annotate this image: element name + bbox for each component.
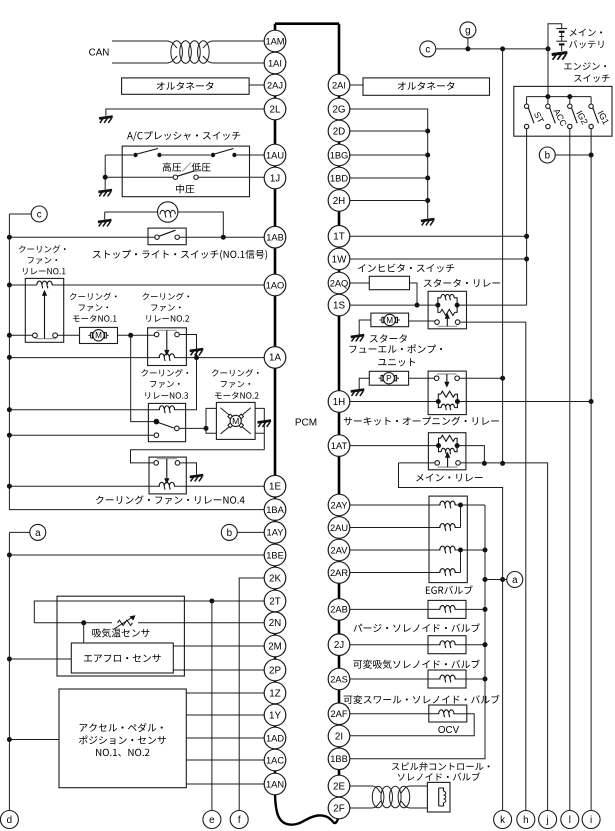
label high/low pressure — [163, 163, 211, 172]
svg-text:2N: 2N — [269, 618, 282, 629]
relay NO.3 blade — [159, 423, 174, 428]
svg-text:1AM: 1AM — [265, 36, 284, 46]
wire accel sensor to pin 1Y — [186, 714, 264, 716]
wire battery down to engine switch bus — [547, 49, 549, 97]
cooling fan motor NO.1 box — [80, 327, 118, 343]
main relay box — [428, 433, 466, 470]
wire pin 1AT through main relay coil — [350, 445, 439, 447]
node c — [420, 41, 436, 57]
svg-text:1BG: 1BG — [330, 150, 349, 160]
svg-text:d: d — [7, 815, 12, 826]
wire IG2 pole down to node l — [569, 129, 571, 811]
PCM pin 2I — [328, 725, 350, 747]
spill valve solenoid box — [427, 782, 450, 812]
wire pin 2AU through EGR coil 2 — [350, 527, 441, 529]
svg-text:2AI: 2AI — [332, 80, 346, 90]
wire pin 2K down to node f — [239, 578, 264, 810]
PCM connector spine (thick outline) — [275, 22, 339, 25]
wire battery vertical (upper) to main relay contact — [502, 49, 504, 464]
wire EGR bus to node a — [485, 579, 507, 581]
PCM pin 1AM — [264, 30, 286, 52]
wire inhibitor switch to 1S line — [410, 283, 418, 305]
label variable swirl solenoid valve — [344, 695, 500, 704]
ground (A/C switch) — [98, 190, 112, 192]
airflow sensor inner box — [71, 643, 173, 673]
main battery — [548, 24, 562, 49]
svg-text:2AS: 2AS — [330, 674, 348, 684]
wire bulb left to ground — [105, 211, 158, 213]
PCM pin 1A — [264, 347, 286, 369]
svg-text:CAN: CAN — [89, 47, 110, 58]
wire pin 2AQ to inhibitor switch — [350, 282, 370, 284]
wire accel sensor to pin 1AD — [186, 737, 264, 739]
PCM pin 1AD — [264, 727, 286, 749]
wire COR contact to battery line — [459, 377, 502, 379]
wire starter motor to ground — [359, 320, 371, 335]
wire pin 2AR through EGR coil 4 — [350, 572, 441, 574]
node g — [460, 22, 476, 38]
PCM pin 2AU — [328, 517, 350, 539]
wire pin 1H through COR coil — [350, 401, 439, 403]
ground (relay NO.4) — [190, 475, 204, 477]
alternator box (right) — [363, 78, 490, 95]
PCM pin 1W — [328, 248, 350, 270]
label main relay — [416, 474, 482, 482]
wire relay NO.3 NO to motor NO.2 — [179, 427, 206, 429]
cooling fan relay NO.2 box — [148, 328, 187, 366]
COR coil and resistor — [436, 399, 441, 404]
purge solenoid valve box — [428, 600, 466, 618]
wire pin 2AV through EGR coil 3 — [350, 549, 441, 551]
label starter relay — [424, 279, 500, 287]
wire bulb right to 1AB line — [178, 212, 223, 237]
wire relay NO.3 NC to left rail — [9, 434, 154, 436]
wire fuel pump to relay contact — [409, 377, 435, 379]
PCM pin 2G — [328, 98, 350, 120]
fuel pump box — [369, 371, 408, 385]
svg-text:1AT: 1AT — [331, 441, 348, 451]
svg-text:h: h — [523, 815, 528, 826]
svg-text:1BB: 1BB — [330, 754, 348, 764]
spill valve solenoid core symbol — [438, 788, 440, 806]
ground (starter motor) — [351, 335, 365, 337]
wire pin 2AF through OCV coil — [350, 713, 440, 715]
wire node b to pin 1AY — [237, 531, 264, 533]
relay NO.2 coil on 1A wire — [9, 357, 160, 359]
wire pin 2J through coil — [350, 644, 441, 646]
switch mid-pressure — [173, 175, 177, 179]
svg-text:M: M — [95, 331, 102, 340]
left rail A (from node c) — [9, 214, 264, 510]
svg-text:c: c — [425, 44, 430, 55]
wire A/C common to ground — [104, 155, 106, 190]
PCM pin 2T — [264, 590, 286, 612]
ground (2L) — [99, 117, 113, 119]
intake air temp sensor thermistor — [118, 620, 133, 625]
svg-text:1A: 1A — [269, 353, 281, 364]
left rail B from node a down to node d — [9, 531, 29, 533]
svg-text:1AY: 1AY — [267, 528, 284, 538]
wire junction down to relay NO.3 common — [131, 335, 155, 421]
wire main relay coil to contact line — [457, 446, 484, 464]
relay NO.4 contacts — [154, 461, 159, 466]
node i — [582, 811, 600, 829]
label stop light switch — [93, 250, 267, 260]
label EGR valve — [426, 585, 473, 594]
ground (fuel pump) — [351, 390, 365, 392]
PCM pin 1BG — [328, 144, 350, 166]
svg-text:1AO: 1AO — [266, 280, 285, 290]
wire pin 2H — [350, 200, 428, 202]
label starter — [370, 334, 407, 342]
label cooling fan motor NO.2 — [212, 369, 259, 377]
PCM pin 1Y — [264, 704, 286, 726]
PCM pin 2AS — [328, 668, 350, 690]
svg-text:2AR: 2AR — [330, 568, 348, 578]
relay NO.3 NO contact — [175, 426, 180, 431]
PCM pin 2N — [264, 612, 286, 634]
wire ST pole down to 1S line — [526, 129, 528, 305]
cooling fan relay NO.4 box — [149, 457, 186, 494]
OCV box — [429, 705, 467, 722]
svg-text:1AD: 1AD — [266, 733, 284, 743]
PCM pin 1AU — [264, 144, 286, 166]
engine switch pole IG2 — [569, 97, 571, 105]
variable swirl solenoid valve box — [428, 670, 466, 688]
cooling fan motor NO.2 box — [216, 402, 255, 439]
alternator box (left) — [122, 78, 250, 94]
wire switch to pin 1AB — [179, 236, 264, 238]
wire pin 2AI to alternator — [350, 84, 363, 86]
stop light bulb — [158, 202, 178, 222]
wire OCV coil to pin 2I — [350, 714, 474, 736]
PCM pin 1S — [328, 294, 350, 316]
PCM pin 1BA — [264, 499, 286, 521]
label spill valve control solenoid valve — [392, 762, 490, 771]
svg-text:2H: 2H — [333, 196, 346, 207]
twisted pair spill valve — [372, 786, 384, 808]
switch hi/lo contact 2 — [211, 153, 215, 157]
PCM pin 2P — [264, 659, 286, 681]
svg-text:2F: 2F — [333, 803, 344, 814]
svg-text:1S: 1S — [333, 300, 345, 311]
PCM pin 1BD — [328, 167, 350, 189]
svg-text:1BA: 1BA — [266, 505, 284, 515]
PCM pin 2M — [264, 635, 286, 657]
starter motor symbol — [382, 317, 384, 322]
svg-text:1AU: 1AU — [266, 150, 284, 160]
fuel pump symbol — [381, 376, 383, 381]
relay NO.3 NC contact — [154, 433, 159, 438]
wire relay NO.4 right contact to ground — [180, 463, 197, 475]
PCM pin 1BE — [264, 544, 286, 566]
svg-text:2K: 2K — [269, 573, 281, 584]
wire pin 2E twisted pair — [350, 785, 372, 787]
wire relay NO.2 right contact down to relay NO.3 coil — [179, 335, 196, 410]
wire pin 2D — [350, 130, 428, 132]
wire rail B to airflow sensor — [9, 658, 71, 660]
wire node b to IG1 — [555, 154, 591, 156]
svg-text:2AF: 2AF — [330, 709, 347, 719]
node a — [507, 572, 523, 588]
wire pin 2T staircase to intake sensor — [34, 601, 264, 623]
svg-text:i: i — [590, 815, 592, 826]
circuit opening relay box — [428, 371, 466, 415]
PCM pin 1T — [328, 226, 350, 248]
PCM pin 2AI — [328, 74, 350, 96]
svg-text:j: j — [546, 815, 549, 826]
wire accel sensor to pin 1AC — [186, 759, 264, 761]
motor NO.1 symbol — [91, 333, 93, 338]
stop light switch contacts — [9, 236, 154, 238]
wire IG1 pole down to node i — [590, 129, 592, 811]
svg-text:b: b — [227, 528, 233, 539]
svg-text:2T: 2T — [269, 596, 280, 607]
twisted pair CAN bus — [171, 41, 183, 64]
svg-text:2AV: 2AV — [331, 545, 349, 555]
svg-text:2D: 2D — [333, 126, 346, 137]
PCM pin 2AY — [328, 494, 350, 516]
node j — [539, 811, 557, 829]
starter relay coil and resistor — [435, 303, 440, 308]
svg-text:2AU: 2AU — [330, 523, 348, 533]
cooling fan relay NO.3 box — [148, 403, 185, 441]
wire accel sensor to pin 1AN — [186, 783, 264, 785]
PCM pin 2J — [328, 634, 350, 656]
engine switch box — [514, 86, 612, 136]
wire pin 1T to starter line — [350, 235, 527, 237]
motor NO.2 left bracket — [206, 408, 216, 433]
starter relay box — [428, 291, 466, 329]
airflow sensor outer box — [57, 596, 184, 676]
node d — [0, 811, 18, 829]
wire CAN high to pin 1AM — [112, 40, 167, 42]
svg-text:a: a — [512, 575, 518, 586]
svg-text:2E: 2E — [333, 781, 345, 792]
engine switch pole IG1 — [590, 97, 592, 105]
circuit opening relay contacts — [434, 376, 439, 381]
PCM pin 1AI — [264, 52, 286, 74]
svg-text:2P: 2P — [269, 665, 281, 676]
svg-text:c: c — [37, 209, 42, 220]
wire 1AU row — [105, 154, 133, 156]
label main battery — [570, 29, 602, 37]
node b — [221, 524, 237, 540]
ground (main battery) — [552, 52, 568, 54]
label inhibitor switch — [358, 264, 454, 273]
PCM pin 2L — [264, 98, 286, 120]
node h — [517, 811, 535, 829]
svg-text:e: e — [209, 815, 215, 826]
node l — [561, 811, 579, 829]
PCM pin 2H — [328, 190, 350, 212]
svg-text:M: M — [386, 316, 393, 325]
engine switch pole ST — [526, 97, 528, 105]
svg-text:2AJ: 2AJ — [267, 80, 283, 90]
node a — [30, 524, 46, 540]
EGR valve box — [429, 496, 467, 582]
wire pin 1BD — [350, 177, 428, 179]
starter relay contacts — [435, 320, 440, 325]
wire motor NO.2 to relay NO.4 left contact — [131, 450, 265, 463]
svg-text:1E: 1E — [269, 482, 281, 493]
relay NO.4 coil on 1E wire — [9, 485, 160, 487]
svg-text:OCV: OCV — [438, 725, 460, 736]
svg-text:1BD: 1BD — [330, 173, 348, 183]
A/C pressure switch box — [122, 146, 249, 197]
svg-text:M: M — [232, 416, 239, 426]
node c — [31, 206, 47, 222]
starter motor box — [371, 313, 409, 327]
wire node g stem — [467, 38, 469, 49]
svg-text:2M: 2M — [268, 641, 282, 652]
switch hi/lo contact 1 — [133, 153, 137, 157]
wire pin 1W to starter line — [350, 258, 527, 260]
PCM pin 1AN — [264, 773, 286, 795]
label cooling fan relay NO.1 — [19, 245, 66, 253]
svg-text:1BE: 1BE — [266, 550, 284, 560]
ground (motor NO.2) — [258, 421, 272, 423]
node b — [539, 147, 555, 163]
variable intake solenoid valve box — [428, 636, 466, 654]
accelerator pedal position sensor box — [59, 689, 186, 788]
wire airflow sensor to pin 2P — [173, 669, 264, 671]
PCM pin 2K — [264, 567, 286, 589]
svg-text:1J: 1J — [270, 173, 280, 184]
PCM pin 2AF — [328, 703, 350, 725]
PCM pin 2D — [328, 120, 350, 142]
main relay coil and resistor — [436, 443, 441, 448]
wire pin 2F twisted pair — [350, 807, 372, 809]
wire airflow sensor to pin 2M — [173, 645, 264, 647]
ground (relay NO.2 contact) — [190, 349, 204, 351]
svg-text:1Y: 1Y — [269, 710, 281, 721]
PCM pin 1BB — [328, 748, 350, 770]
svg-text:2AY: 2AY — [331, 500, 348, 510]
node e — [203, 811, 221, 829]
relay NO.3 changeover common — [154, 419, 160, 425]
PCM pin 2AR — [328, 562, 350, 584]
svg-text:2AB: 2AB — [330, 605, 348, 615]
label cooling fan motor NO.1 — [70, 292, 117, 300]
wire pin 2AS through coil — [350, 678, 441, 680]
wire accel sensor to pin 1Z — [186, 692, 264, 694]
PCM pin 1AC — [264, 749, 286, 771]
svg-text:2J: 2J — [334, 640, 344, 651]
svg-text:P: P — [386, 374, 392, 383]
svg-text:1AI: 1AI — [268, 58, 282, 68]
svg-text:PCM: PCM — [295, 417, 317, 428]
PCM pin 1E — [264, 475, 286, 497]
label mid pressure — [176, 184, 194, 193]
engine switch bus — [527, 96, 592, 98]
wire pin 1S through starter relay — [350, 304, 438, 306]
label purge solenoid valve — [353, 623, 479, 632]
wire 2N to intake air temp sensor — [34, 622, 112, 624]
PCM pin 2AV — [328, 539, 350, 561]
PCM pin 2E — [328, 775, 350, 797]
PCM pin 2F — [328, 797, 350, 819]
label intake air temp sensor — [92, 628, 149, 637]
node k — [494, 811, 512, 829]
PCM pin 1AB — [264, 226, 286, 248]
motor NO.2 right bracket — [255, 408, 264, 449]
svg-text:1W: 1W — [332, 254, 347, 265]
PCM pin 1AT — [328, 435, 350, 457]
relay NO.1 contacts — [9, 334, 32, 336]
svg-text:1AC: 1AC — [266, 755, 284, 765]
svg-text:2I: 2I — [335, 731, 343, 742]
wire rail B to pin 1BE — [9, 554, 264, 556]
svg-text:l: l — [569, 815, 571, 826]
svg-text:2G: 2G — [332, 104, 345, 115]
svg-text:b: b — [545, 150, 551, 161]
stop light switch box — [148, 228, 186, 245]
engine switch pole ACC — [547, 97, 549, 105]
wire pin 1BG — [350, 154, 428, 156]
wire node c to left rail — [9, 213, 31, 215]
wire fuel pump to ground — [359, 378, 369, 389]
wire node e riser from 2T line — [211, 601, 213, 810]
label A/C pressure switch — [127, 131, 240, 141]
svg-text:2AQ: 2AQ — [330, 278, 349, 288]
label cooling fan relay NO.4 — [96, 495, 245, 504]
PCM pin 1H — [328, 391, 350, 413]
wire main relay left contact jog to lower battery rail — [399, 463, 503, 811]
node f — [230, 811, 248, 829]
PCM pin 1AO — [264, 274, 286, 296]
svg-text:f: f — [238, 815, 241, 826]
label fuel pump unit — [349, 344, 442, 353]
wire starter motor to relay contact — [409, 320, 435, 322]
wire junction down to airflow sensor — [83, 623, 85, 643]
wire pin 2G to ground rail — [350, 109, 428, 219]
svg-text:1Z: 1Z — [269, 688, 280, 699]
PCM pin 1J — [264, 167, 286, 189]
svg-text:1AB: 1AB — [266, 233, 284, 243]
wire 1J row — [105, 176, 173, 178]
svg-text:2L: 2L — [270, 104, 281, 115]
ground (2G-2H) — [421, 219, 435, 221]
relay NO.1 coil on 1AO wire — [9, 284, 37, 286]
svg-text:k: k — [500, 815, 505, 826]
label engine switch — [564, 62, 606, 70]
wire pin 2AY through EGR coil 1 — [350, 504, 441, 506]
wire starter relay contact to node h line — [467, 322, 526, 810]
inhibitor switch box — [369, 276, 409, 289]
PCM pin 1Z — [264, 682, 286, 704]
wire rail B to accel sensor — [9, 739, 59, 741]
wire pin 2AB through purge solenoid coil — [350, 608, 441, 610]
svg-text:1AN: 1AN — [266, 779, 284, 789]
svg-text:1H: 1H — [333, 397, 346, 408]
label cooling fan relay NO.2 — [142, 292, 189, 300]
label circuit opening relay — [344, 416, 499, 425]
svg-text:a: a — [35, 528, 41, 539]
svg-text:g: g — [465, 25, 470, 36]
PCM pin 1AY — [264, 522, 286, 544]
motor NO.2 X-cross with M — [221, 408, 231, 417]
PCM pin 2AB — [328, 599, 350, 621]
wire motor NO.1 to relay NO.2 left contact — [118, 334, 155, 336]
PCM pin 2AQ — [328, 272, 350, 294]
PCM pin 2AJ — [264, 74, 286, 96]
wire node c to battery — [436, 48, 548, 50]
wire CAN low to pin 1AI — [112, 62, 167, 64]
main relay contacts — [435, 461, 440, 466]
label cooling fan relay NO.3 — [141, 369, 188, 377]
wire pin 2L to ground — [106, 109, 264, 116]
